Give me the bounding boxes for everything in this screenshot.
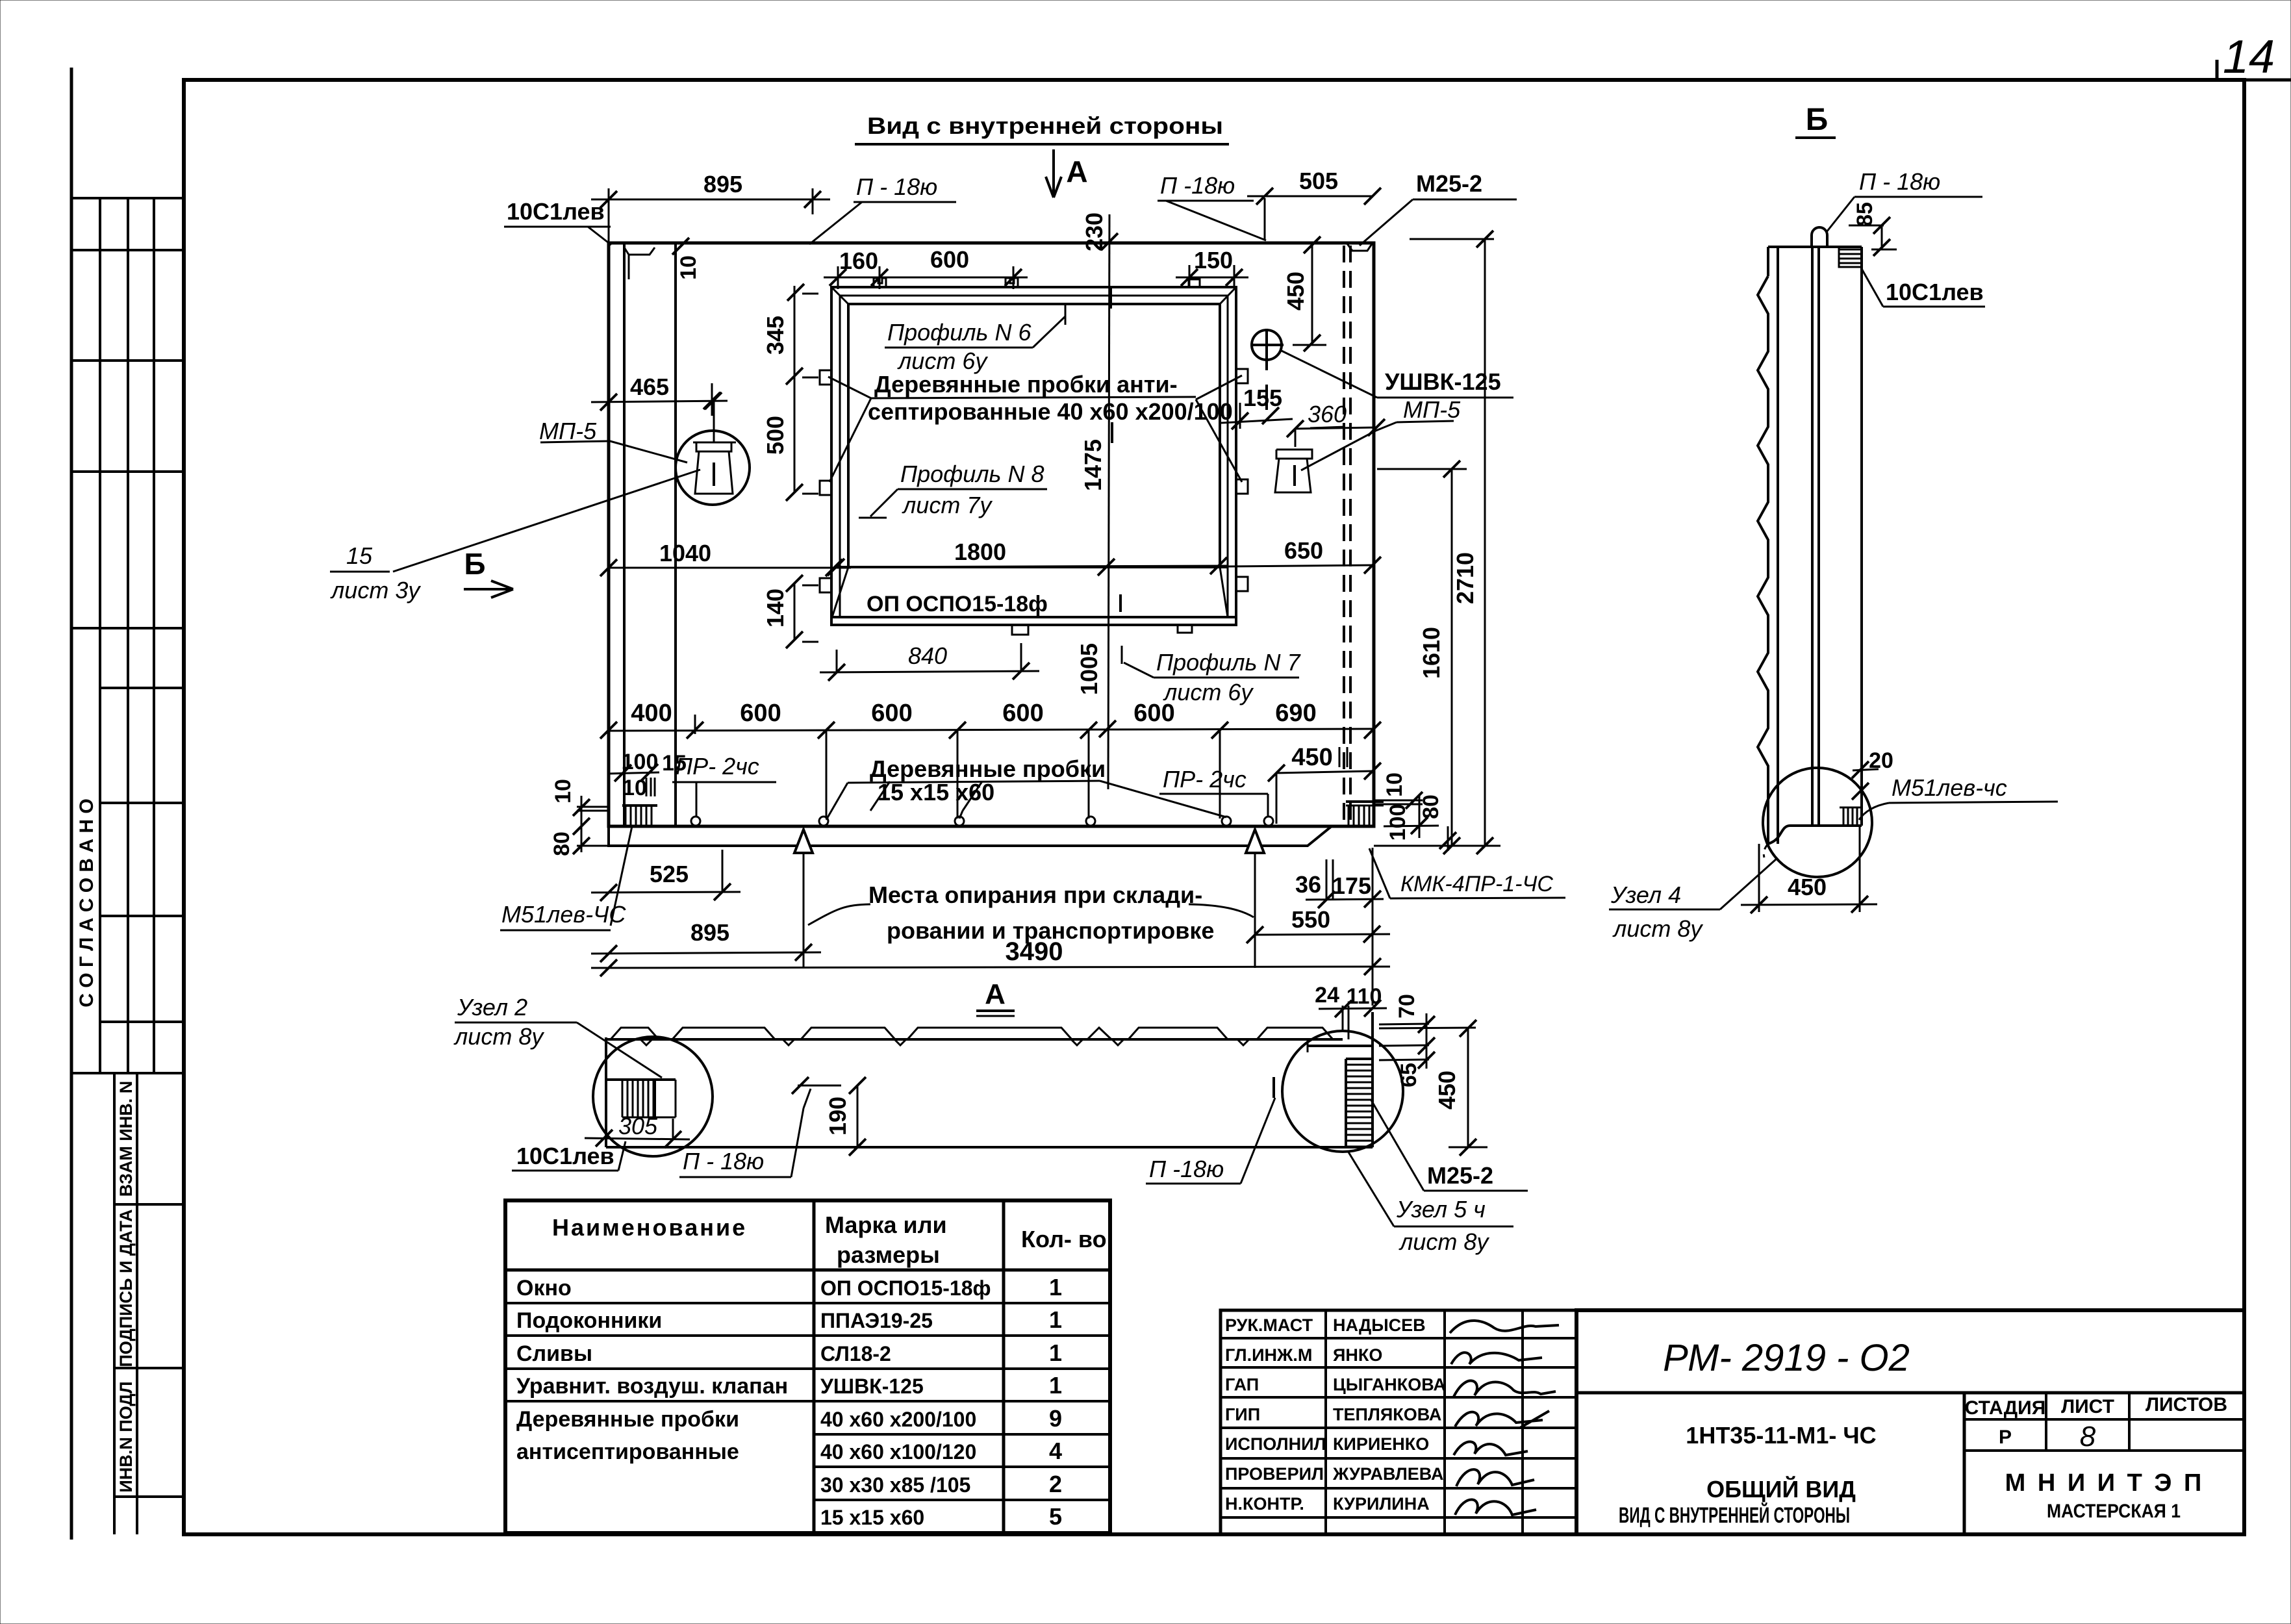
window frame corner diagonals	[831, 287, 848, 304]
svg-text:лист 8у: лист 8у	[453, 1023, 544, 1050]
section A left end edge	[605, 1037, 607, 1147]
svg-text:175: 175	[1332, 872, 1371, 899]
svg-text:1005: 1005	[1076, 643, 1102, 695]
detail circle uzel 4	[1763, 768, 1872, 877]
left strip horizontal lines lower	[114, 1203, 184, 1206]
plug circles on bottom edge	[691, 817, 700, 826]
svg-text:15 х15 х60: 15 х15 х60	[820, 1506, 924, 1529]
svg-text:размеры: размеры	[837, 1241, 940, 1268]
svg-text:ПОДПИСЬ И ДАТА: ПОДПИСЬ И ДАТА	[116, 1209, 136, 1367]
frame top line extension to sheet right edge	[2244, 79, 2291, 82]
svg-text:15: 15	[346, 542, 373, 569]
svg-text:160: 160	[839, 247, 878, 274]
svg-text:895: 895	[703, 171, 742, 197]
svg-text:лист 6у: лист 6у	[897, 348, 988, 374]
section A right end details	[1342, 1006, 1344, 1030]
dimension 450 right of window	[1311, 242, 1313, 343]
svg-text:ОП ОСПО15-18ф: ОП ОСПО15-18ф	[867, 592, 1048, 616]
svg-text:550: 550	[1291, 906, 1330, 933]
svg-text:ОБЩИЙ ВИД: ОБЩИЙ ВИД	[1706, 1475, 1856, 1503]
wooden plug marks window right side	[1236, 369, 1248, 383]
svg-text:ГЛ.ИНЖ.М: ГЛ.ИНЖ.М	[1225, 1345, 1312, 1365]
section B bottom step	[1768, 826, 1862, 844]
window frame inner rect	[848, 304, 1220, 567]
svg-text:40 х60 х100/120: 40 х60 х100/120	[820, 1440, 976, 1464]
svg-text:3490: 3490	[1006, 937, 1063, 966]
svg-text:24: 24	[1315, 983, 1339, 1008]
svg-text:450: 450	[1291, 744, 1332, 771]
section B bottom dashed continuation	[1764, 844, 1768, 857]
svg-text:антисептированные: антисептированные	[516, 1440, 739, 1464]
svg-text:лист 6у: лист 6у	[1163, 679, 1254, 705]
support arrow right	[1246, 830, 1264, 853]
svg-text:345: 345	[762, 316, 789, 355]
svg-text:П - 18ю: П - 18ю	[1859, 168, 1940, 195]
section A axis mark right	[1272, 1077, 1275, 1098]
svg-text:П -18ю: П -18ю	[1160, 172, 1235, 199]
svg-text:155: 155	[1243, 385, 1282, 411]
svg-text:2: 2	[1049, 1471, 1062, 1497]
svg-text:П -18ю: П -18ю	[1149, 1156, 1224, 1182]
dimension 70 65 section A	[1379, 1024, 1429, 1024]
svg-text:80: 80	[550, 831, 574, 856]
svg-text:450: 450	[1282, 272, 1309, 311]
svg-text:Узел 5 ч: Узел 5 ч	[1396, 1196, 1486, 1223]
svg-text:8: 8	[2080, 1421, 2096, 1453]
section A top surface line	[606, 1038, 1343, 1041]
svg-text:ГИП: ГИП	[1225, 1404, 1260, 1424]
dimension 10 top left	[672, 238, 689, 255]
svg-text:500: 500	[762, 416, 789, 455]
dimension 600 window top	[1013, 266, 1015, 289]
section B panel body right edge	[1860, 247, 1863, 826]
svg-text:СЛ18-2: СЛ18-2	[820, 1342, 891, 1365]
svg-text:Подоконники: Подоконники	[516, 1308, 662, 1333]
title block outline	[1576, 1310, 2244, 1534]
svg-text:ЖУРАВЛЕВА: ЖУРАВЛЕВА	[1332, 1464, 1443, 1484]
svg-text:650: 650	[1284, 537, 1323, 564]
svg-text:лист 8у: лист 8у	[1612, 915, 1703, 942]
detail circle uzel 2 left	[593, 1037, 713, 1156]
svg-text:ПР- 2чс: ПР- 2чс	[676, 753, 759, 780]
svg-text:80: 80	[1419, 794, 1443, 819]
svg-text:10С1лев: 10С1лев	[1886, 279, 1984, 305]
panel outline main view	[609, 243, 1374, 826]
svg-text:Уравнит. воздуш. клапан: Уравнит. воздуш. клапан	[516, 1374, 788, 1399]
svg-text:895: 895	[690, 919, 729, 946]
svg-text:КИРИЕНКО: КИРИЕНКО	[1333, 1434, 1429, 1454]
svg-text:РУК.МАСТ: РУК.МАСТ	[1225, 1315, 1313, 1335]
dashes crossing marks	[1339, 747, 1341, 767]
svg-text:ЯНКО: ЯНКО	[1333, 1345, 1382, 1365]
dimension 140	[794, 583, 796, 640]
svg-text:ГАП: ГАП	[1225, 1375, 1259, 1395]
svg-text:150: 150	[1194, 247, 1233, 273]
svg-text:Марка или: Марка или	[825, 1212, 947, 1238]
svg-text:Узел 4: Узел 4	[1610, 882, 1681, 908]
svg-text:600: 600	[930, 246, 969, 273]
svg-text:1: 1	[1049, 1306, 1062, 1333]
svg-text:600: 600	[1002, 700, 1043, 727]
window sill bottom line	[831, 616, 1236, 618]
window sill line	[840, 566, 1228, 568]
svg-text:Окно: Окно	[516, 1276, 572, 1300]
section B middle joint double line	[1811, 247, 1814, 826]
svg-text:ИСПОЛНИЛ: ИСПОЛНИЛ	[1225, 1434, 1326, 1454]
panel corner notch top-left	[624, 247, 655, 255]
window bottom plug tabs	[1012, 625, 1028, 635]
left margin stamp strip verticals	[99, 198, 101, 1073]
svg-text:А: А	[985, 978, 1006, 1010]
panel inner vertical line left 2	[674, 243, 677, 826]
svg-text:525: 525	[650, 861, 689, 887]
svg-text:100: 100	[1386, 804, 1410, 841]
section B top anchor hatch block	[1839, 247, 1862, 267]
svg-text:1040: 1040	[659, 540, 711, 566]
signature squiggles	[1450, 1321, 1559, 1333]
vertical dashed joint lines right	[1343, 246, 1345, 824]
svg-text:СТАДИЯ: СТАДИЯ	[1965, 1397, 2046, 1419]
signature table grid	[1221, 1310, 1576, 1534]
detail circle uzel 5 right	[1282, 1031, 1403, 1152]
svg-text:65: 65	[1397, 1063, 1421, 1087]
section A bottom edge	[606, 1146, 1373, 1148]
svg-text:НАДЫСЕВ: НАДЫСЕВ	[1333, 1315, 1426, 1335]
dimension 345 and 500 column	[794, 286, 796, 492]
svg-text:465: 465	[630, 374, 669, 400]
svg-text:1НТ35-11-М1- ЧС: 1НТ35-11-М1- ЧС	[1686, 1422, 1876, 1449]
left outside dims 10 80	[581, 796, 583, 852]
extension lines for 600 dims	[826, 730, 828, 818]
sheet outer left border line	[70, 68, 73, 1540]
svg-text:10С1лев: 10С1лев	[516, 1143, 614, 1169]
svg-text:РМ- 2919 - О2: РМ- 2919 - О2	[1663, 1337, 1910, 1379]
section B top dome profile P-18yu	[1812, 227, 1827, 247]
svg-text:9: 9	[1049, 1405, 1062, 1432]
svg-text:М25-2: М25-2	[1427, 1162, 1493, 1189]
section A key trapezoids	[611, 1028, 659, 1039]
svg-text:Н.КОНТР.: Н.КОНТР.	[1225, 1494, 1304, 1514]
lifting loop MP-5 right box	[1276, 450, 1312, 459]
svg-text:400: 400	[631, 700, 672, 727]
svg-text:Профиль N 8: Профиль N 8	[900, 461, 1044, 487]
dimension 160 window top left	[837, 266, 839, 289]
svg-text:А: А	[1066, 155, 1087, 188]
svg-text:2710: 2710	[1452, 552, 1478, 604]
svg-text:40 х60 х200/100: 40 х60 х200/100	[820, 1408, 976, 1431]
svg-text:70: 70	[1395, 994, 1419, 1019]
svg-text:36: 36	[1295, 871, 1321, 898]
svg-text:450: 450	[1434, 1071, 1460, 1110]
svg-text:ИНВ.N ПОДЛ: ИНВ.N ПОДЛ	[116, 1381, 136, 1492]
svg-text:ППАЭ19-25: ППАЭ19-25	[820, 1309, 933, 1332]
window center axis line	[1108, 214, 1109, 789]
svg-text:5: 5	[1049, 1503, 1062, 1530]
axis mark top	[1109, 286, 1112, 309]
axis mark near sill	[1111, 422, 1113, 443]
svg-text:230: 230	[1081, 212, 1108, 251]
svg-text:1800: 1800	[954, 539, 1006, 565]
svg-text:690: 690	[1275, 700, 1316, 727]
dimension 2710 right	[1410, 238, 1494, 240]
svg-text:Сливы: Сливы	[516, 1341, 592, 1366]
panel bottom ledge	[609, 826, 1332, 846]
svg-text:10С1лев: 10С1лев	[507, 198, 605, 225]
svg-text:ЦЫГАНКОВА: ЦЫГАНКОВА	[1333, 1375, 1446, 1395]
svg-text:ПР- 2чс: ПР- 2чс	[1163, 766, 1247, 793]
svg-text:Кол- во: Кол- во	[1021, 1226, 1107, 1252]
svg-text:14: 14	[2223, 31, 2275, 83]
svg-text:Профиль N 6: Профиль N 6	[887, 319, 1032, 346]
svg-text:УШВК-125: УШВК-125	[1385, 368, 1501, 395]
svg-text:305: 305	[618, 1113, 658, 1139]
svg-text:Б: Б	[464, 547, 485, 581]
wooden plug marks window left side	[820, 370, 831, 385]
stadiya list listov table	[1964, 1418, 2244, 1421]
section B bottom anchor hatch block	[1840, 807, 1862, 809]
svg-text:Р: Р	[1999, 1427, 2012, 1448]
section A right anchor hatch block	[1346, 1058, 1373, 1060]
svg-text:лист 7у: лист 7у	[902, 492, 993, 518]
dimension 895 top left	[608, 188, 610, 243]
svg-text:ВИД С ВНУТРЕННЕЙ СТОРОНЫ: ВИД С ВНУТРЕННЕЙ СТОРОНЫ	[1619, 1503, 1850, 1528]
svg-text:1610: 1610	[1418, 627, 1445, 679]
svg-text:Б: Б	[1806, 103, 1829, 137]
svg-text:ТЕПЛЯКОВА: ТЕПЛЯКОВА	[1333, 1404, 1441, 1424]
svg-text:лист 3у: лист 3у	[330, 577, 421, 603]
lifting loop MP-5 left box	[693, 442, 736, 444]
svg-text:450: 450	[1788, 874, 1827, 900]
svg-text:Деревянные пробки: Деревянные пробки	[516, 1407, 739, 1432]
svg-text:лист 8у: лист 8у	[1399, 1228, 1489, 1255]
svg-text:Деревянные пробки анти-: Деревянные пробки анти-	[874, 371, 1178, 398]
section arrow A down	[1052, 149, 1055, 197]
svg-text:10: 10	[551, 779, 576, 804]
air valve USHVK-125 symbol	[1252, 330, 1282, 360]
section B left inner line	[1777, 247, 1779, 844]
svg-text:600: 600	[871, 700, 912, 727]
dimension 150 window top right	[1189, 265, 1191, 286]
svg-text:85: 85	[1853, 202, 1877, 227]
right outside dims 10 100 80	[1373, 800, 1423, 802]
svg-text:Места опирания при склади-: Места опирания при склади-	[868, 882, 1202, 908]
svg-text:Деревянные пробки: Деревянные пробки	[870, 755, 1106, 782]
svg-text:1475: 1475	[1080, 439, 1106, 491]
svg-text:Профиль N 7: Профиль N 7	[1156, 649, 1301, 676]
svg-text:ОП ОСПО15-18ф: ОП ОСПО15-18ф	[820, 1276, 991, 1300]
dimension 505 top right	[1264, 198, 1266, 239]
svg-text:септированные 40 х60 х200/100: септированные 40 х60 х200/100	[868, 398, 1233, 425]
section A left anchor hatch block	[606, 1078, 676, 1081]
svg-text:840: 840	[908, 642, 947, 669]
dimension 450 section A right	[1379, 1028, 1476, 1028]
anchor hatch block bottom right	[1346, 800, 1384, 803]
svg-text:ЛИСТ: ЛИСТ	[2061, 1396, 2114, 1417]
svg-text:М25-2: М25-2	[1416, 170, 1482, 197]
window sill axis tick	[1119, 594, 1122, 612]
dimension 190	[857, 1085, 859, 1147]
svg-text:МП-5: МП-5	[539, 418, 597, 444]
support arrow left	[794, 830, 813, 853]
svg-text:15: 15	[662, 751, 687, 776]
svg-text:1: 1	[1049, 1339, 1062, 1366]
window outer frame	[831, 287, 1236, 625]
dimension row 400-600x4-690	[694, 715, 696, 734]
svg-text:М51лев-чс: М51лев-чс	[1892, 774, 2007, 801]
svg-text:М Н И И Т Э П: М Н И И Т Э П	[2005, 1469, 2205, 1497]
svg-text:1: 1	[1049, 1372, 1062, 1399]
svg-text:140: 140	[762, 589, 789, 628]
detail circle MP-5 left	[676, 431, 750, 505]
svg-text:КМК-4ПР-1-ЧС: КМК-4ПР-1-ЧС	[1400, 872, 1553, 896]
svg-text:П - 18ю: П - 18ю	[856, 173, 937, 200]
panel corner notch top-right	[1347, 243, 1373, 251]
panel inner vertical line left 1	[623, 243, 626, 826]
section A key junction dips	[640, 1039, 652, 1045]
svg-text:360: 360	[1308, 401, 1347, 427]
svg-text:УШВК-125: УШВК-125	[820, 1375, 924, 1398]
window frame middle rect	[840, 296, 1228, 617]
svg-text:600: 600	[740, 700, 781, 727]
svg-text:ЛИСТОВ: ЛИСТОВ	[2145, 1394, 2227, 1415]
svg-text:4: 4	[1049, 1438, 1062, 1464]
svg-text:505: 505	[1299, 168, 1338, 194]
dimension 1610 right	[1377, 468, 1467, 470]
window top plug tabs	[874, 278, 886, 287]
svg-text:10: 10	[676, 255, 701, 280]
svg-text:П - 18ю: П - 18ю	[683, 1148, 764, 1174]
svg-text:МАСТЕРСКАЯ 1: МАСТЕРСКАЯ 1	[2047, 1501, 2181, 1522]
svg-text:ПРОВЕРИЛ: ПРОВЕРИЛ	[1225, 1464, 1324, 1484]
section B top edge	[1768, 246, 1862, 248]
svg-text:С О Г Л А С О В А Н О: С О Г Л А С О В А Н О	[76, 798, 97, 1007]
svg-text:КУРИЛИНА: КУРИЛИНА	[1333, 1494, 1430, 1514]
section B left outer edge with teeth	[1767, 247, 1769, 276]
svg-text:Наименование: Наименование	[552, 1214, 747, 1241]
svg-text:10: 10	[1382, 772, 1407, 797]
parts table grid	[505, 1200, 1110, 1533]
svg-text:190: 190	[824, 1097, 851, 1136]
anchor hatch block bottom left	[622, 804, 657, 807]
svg-text:30 х30 х85 /105: 30 х30 х85 /105	[820, 1473, 970, 1497]
svg-text:М51лев-ЧС: М51лев-ЧС	[501, 901, 626, 928]
svg-text:1: 1	[1049, 1274, 1062, 1300]
svg-text:Узел 2: Узел 2	[457, 994, 527, 1021]
left strip horizontal lines upper	[71, 197, 184, 199]
svg-text:Вид с внутренней стороны: Вид с внутренней стороны	[867, 112, 1223, 139]
svg-text:ВЗАМ ИНВ. N: ВЗАМ ИНВ. N	[116, 1081, 136, 1197]
svg-text:МП-5: МП-5	[1403, 396, 1461, 423]
